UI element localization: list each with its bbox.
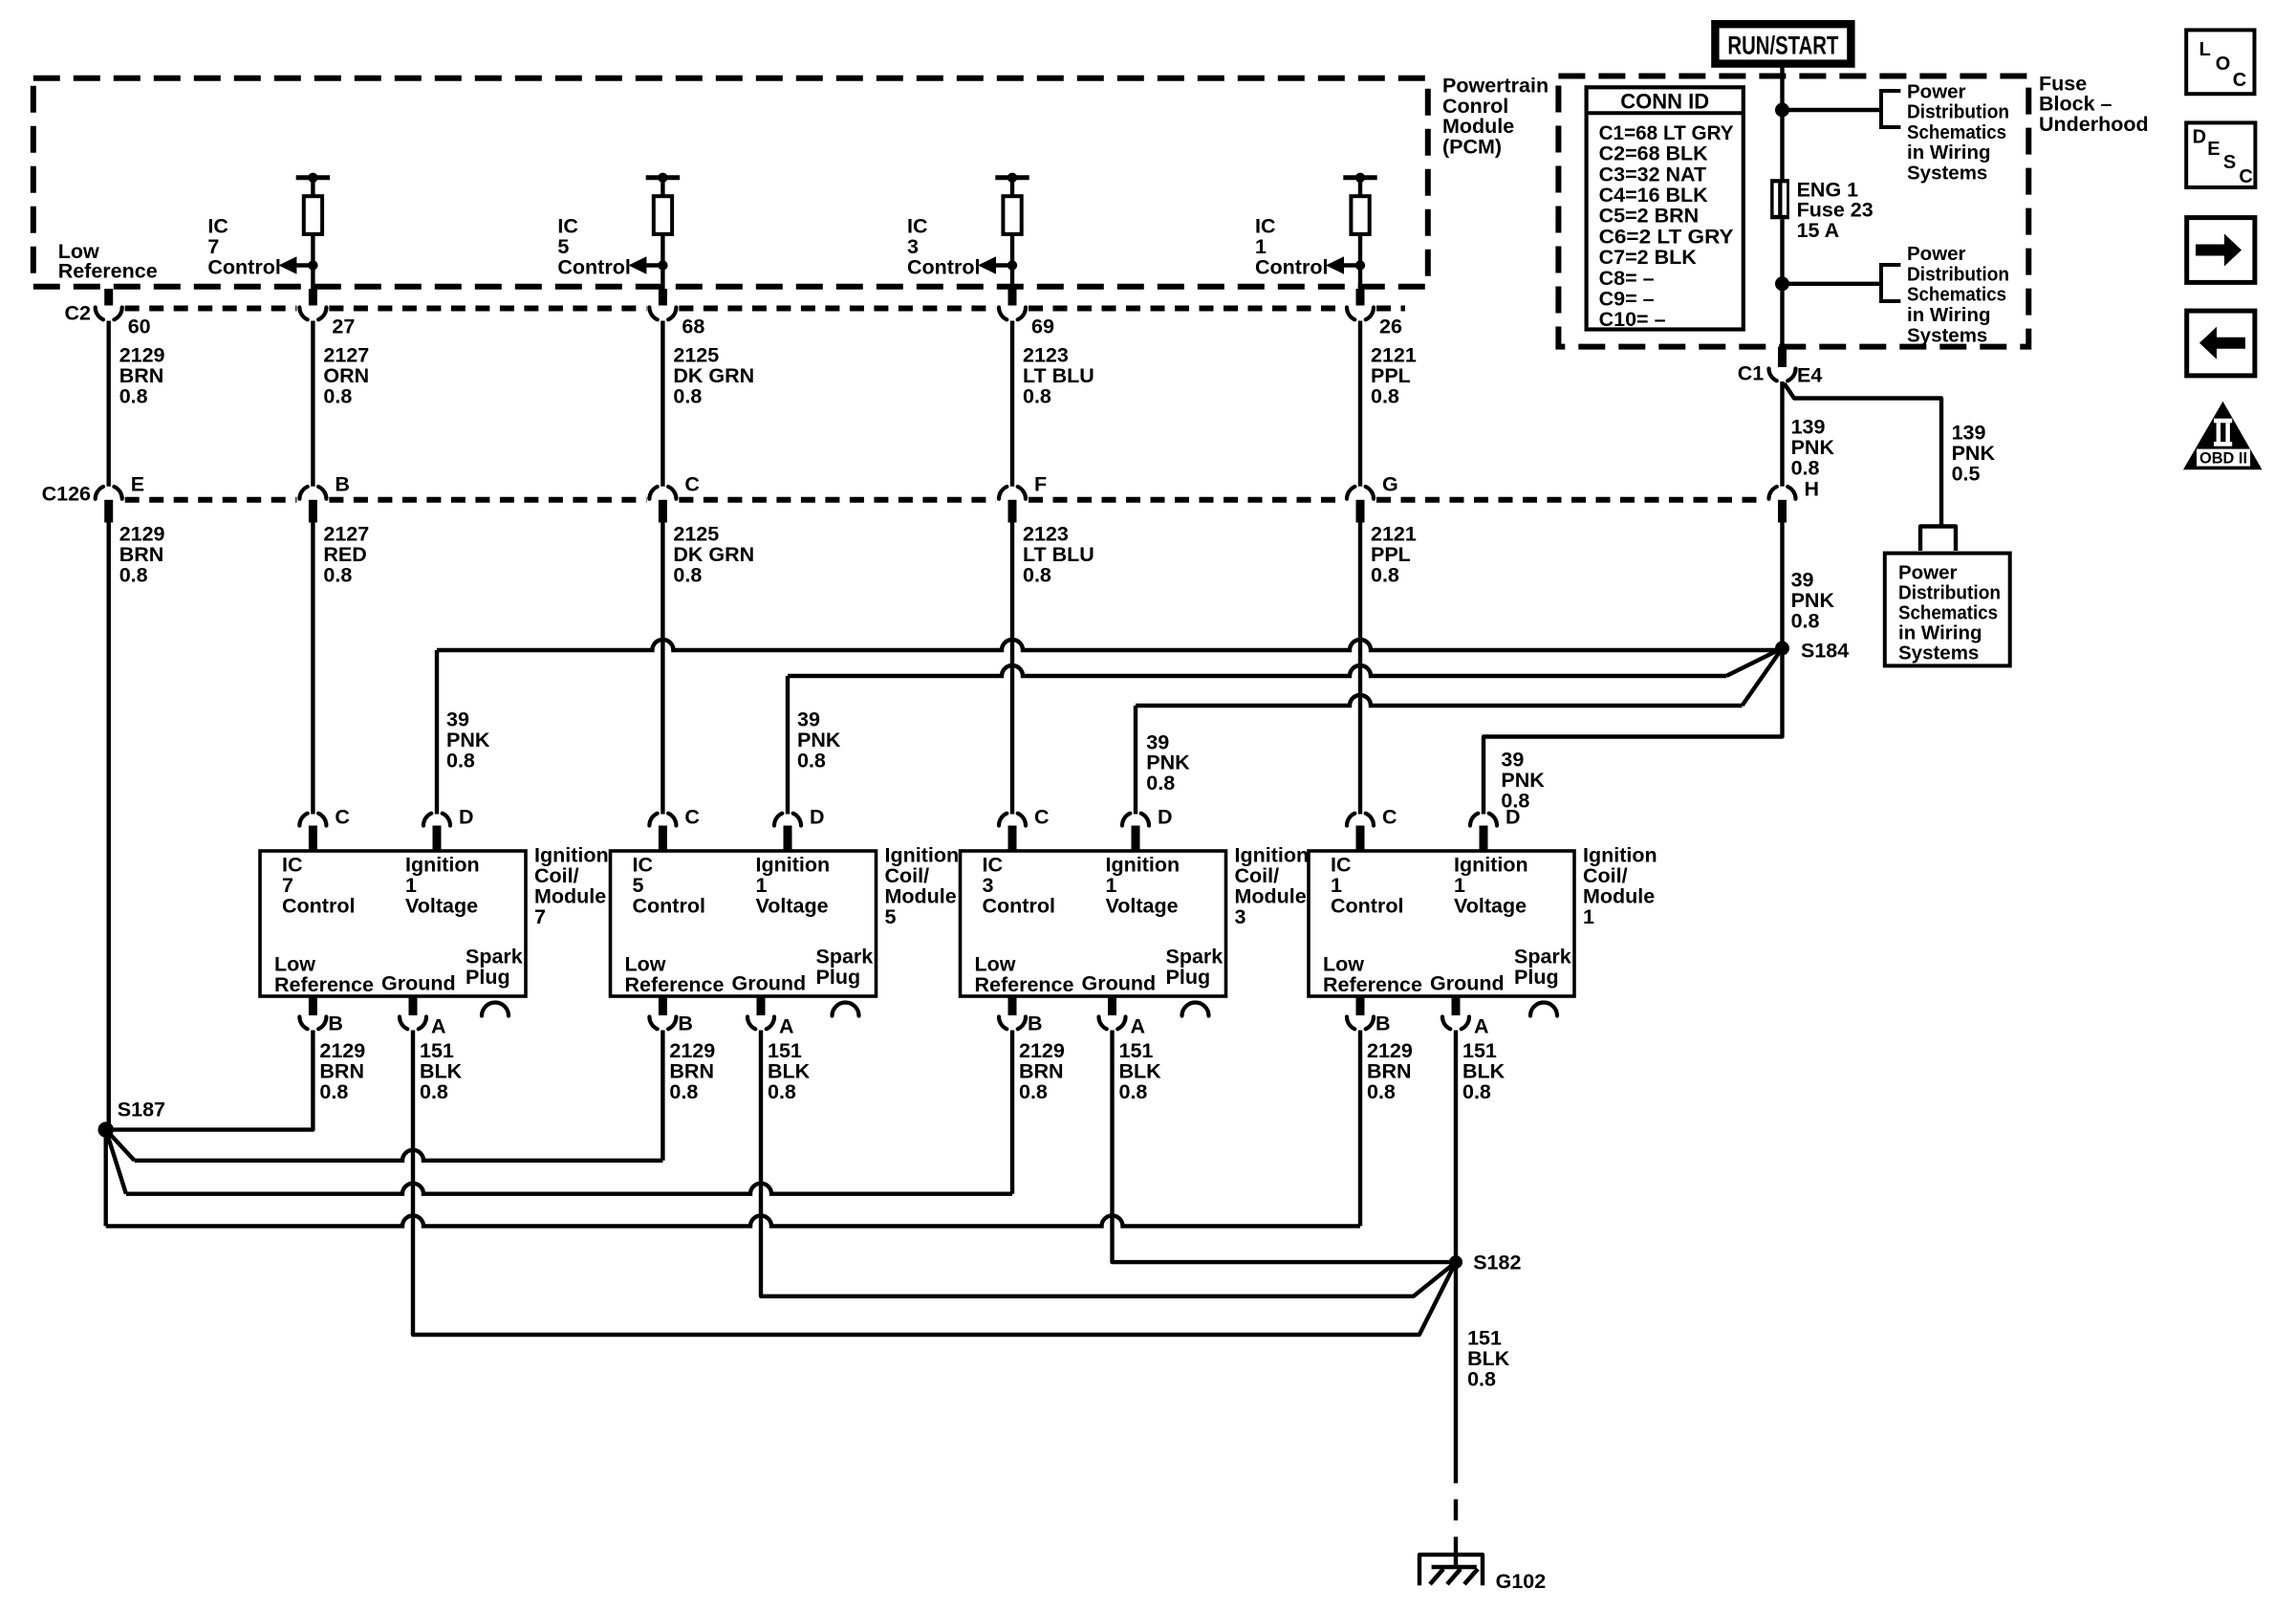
RUN/START power tag box — [1715, 24, 1851, 63]
wire label 2129 BRN 0.8 (lower) — [119, 523, 165, 587]
ignition coil/module 5 box — [611, 851, 877, 996]
label: coil 3 pin C — [1034, 806, 1050, 829]
svg-text:Distribution: Distribution — [1907, 101, 2009, 123]
coil 5 spark plug arc — [833, 1003, 859, 1016]
PCM module dashed box — [33, 78, 1428, 287]
supply rail T-bar IC 1 driver — [1343, 173, 1376, 197]
svg-text:B: B — [328, 1012, 343, 1035]
connector row C126 dotted line — [125, 497, 1766, 503]
svg-text:Ground: Ground — [1082, 972, 1157, 995]
wire low reference bus to coil 1 — [106, 1031, 1360, 1227]
label: coil 5 pin A — [779, 1015, 794, 1038]
resistor IC 3 driver — [1003, 196, 1021, 234]
wire segment 2127 ORN (C2 to C126) — [311, 321, 314, 487]
connector row C2 dotted line — [125, 306, 1405, 312]
wire 39 PNK to coil 5 pin D — [788, 648, 1783, 815]
svg-text:Systems: Systems — [1907, 162, 1987, 184]
icon forward arrow — [2196, 234, 2242, 267]
svg-text:C2=68 BLK: C2=68 BLK — [1599, 142, 1709, 165]
wire segment 2125 DK GRN (C2 to C126) — [661, 321, 664, 487]
arrow IC 1 control output — [1326, 256, 1365, 273]
label: coil 7 pin B — [328, 1012, 343, 1035]
wire label 2125 DK GRN 0.8 (lower) — [673, 523, 754, 587]
connector C2 pin 69 — [999, 289, 1026, 319]
svg-text:B: B — [1375, 1012, 1391, 1035]
label: Powertrain Control Module (PCM) — [1442, 74, 1549, 158]
label: IC 3 Control (coil box) — [983, 854, 1055, 918]
icon DESC box — [2186, 122, 2255, 187]
svg-text:in Wiring: in Wiring — [1907, 304, 1991, 326]
svg-text:S182: S182 — [1473, 1251, 1521, 1274]
icon OBD II triangle — [2183, 402, 2263, 469]
label: Low Reference (coil 5) — [625, 953, 725, 996]
label: Ignition 1 Voltage (coil 1) — [1454, 854, 1528, 918]
coil 7 pin D connector — [423, 814, 450, 851]
svg-text:Schematics: Schematics — [1907, 121, 2006, 143]
svg-text:C1=68 LT GRY: C1=68 LT GRY — [1599, 121, 1734, 144]
wire segment 2129 BRN (C2 to C126) — [106, 321, 110, 487]
connector C126 pin B — [299, 487, 326, 522]
svg-text:60: 60 — [128, 316, 151, 338]
wire coil 5 ground to S182 — [761, 1031, 1456, 1296]
connector C2 pin 60 — [96, 289, 122, 319]
icon back-arrow box — [2187, 311, 2255, 376]
ground symbol G102 — [1419, 1555, 1483, 1585]
svg-text:C3=32 NAT: C3=32 NAT — [1599, 163, 1707, 185]
wire label 139 PNK 0.5 — [1952, 422, 1996, 486]
label: Spark Plug (coil 5) — [816, 946, 874, 989]
wire label 2129 BRN 0.8 (upper) — [119, 344, 165, 408]
label: IC 3 Control (PCM) — [907, 215, 980, 279]
splice S184 — [1775, 642, 1789, 656]
wire coil 7 pin B to S187 — [106, 1031, 314, 1130]
wire label 151 BLK 0.8 (coil 7 ground) — [420, 1039, 463, 1103]
svg-text:D: D — [2193, 126, 2206, 147]
svg-text:D: D — [1505, 806, 1521, 829]
wire label 39 PNK 0.8 (below H) — [1791, 569, 1835, 633]
svg-text:Schematics: Schematics — [1907, 284, 2006, 306]
svg-text:26: 26 — [1379, 316, 1402, 338]
label: IC 1 Control (PCM) — [1255, 215, 1328, 279]
splice S187 — [98, 1121, 114, 1137]
label: IC 5 Control (PCM) — [557, 215, 630, 279]
label: Spark Plug (coil 3) — [1166, 946, 1224, 989]
coil 7 pin A connector — [400, 996, 426, 1029]
label: C126 pin letter G — [1382, 473, 1398, 496]
coil 3 pin D connector — [1122, 814, 1149, 851]
coil 1 pin A connector — [1442, 996, 1469, 1029]
coil 3 pin A connector — [1099, 996, 1126, 1029]
svg-text:A: A — [779, 1015, 794, 1038]
wire IC 3 control (inside PCM) — [1010, 234, 1014, 305]
label: Low Reference (coil 7) — [274, 953, 374, 996]
svg-text:Distribution: Distribution — [1898, 581, 2001, 603]
splice S182 — [1449, 1255, 1462, 1269]
label: S182 — [1473, 1251, 1521, 1274]
junction dot upper branch — [1775, 103, 1789, 118]
resistor IC 1 driver — [1351, 196, 1369, 234]
power distribution schematics reference box — [1885, 554, 2010, 666]
wire 139 PNK 0.5 branch — [1785, 383, 1942, 527]
wire label 151 BLK 0.8 (coil 1 ground) — [1462, 1039, 1505, 1103]
wire coil 3 ground to S182 — [1113, 1031, 1457, 1263]
off-page bracket (upper) — [1881, 89, 1900, 129]
wire label 39 PNK 0.8 (coil 5) — [797, 708, 841, 773]
arrow IC 7 control output — [278, 256, 317, 273]
svg-text:D: D — [459, 806, 474, 829]
label: Ignition Coil/Module 1 — [1583, 844, 1657, 928]
svg-text:E4: E4 — [1797, 364, 1822, 387]
svg-text:S: S — [2223, 152, 2236, 173]
svg-text:A: A — [431, 1015, 446, 1038]
svg-text:Power: Power — [1898, 561, 1958, 583]
wire branch to power distribution ref (lower) — [1783, 282, 1882, 286]
coil 7 pin C connector — [299, 814, 326, 851]
icon LOC box — [2186, 30, 2254, 94]
svg-text:in Wiring: in Wiring — [1907, 142, 1991, 163]
label: Low Reference (coil 1) — [1323, 953, 1422, 996]
connector C126 pin E — [96, 487, 122, 522]
wire 39 PNK to coil 7 pin D — [437, 640, 1783, 815]
label: Ground (coil 1) — [1430, 972, 1505, 995]
connector C126 pin F — [999, 487, 1026, 522]
svg-text:C: C — [2239, 166, 2252, 187]
label: E4 — [1797, 364, 1822, 387]
svg-text:C4=16 BLK: C4=16 BLK — [1599, 184, 1709, 207]
label: IC 7 Control (coil box) — [282, 854, 355, 918]
coil 1 spark plug arc — [1530, 1003, 1557, 1016]
svg-text:F: F — [1034, 473, 1047, 496]
svg-text:C: C — [1382, 806, 1397, 829]
wire 2125 DK GRN (to coil 5 pin C) — [661, 523, 664, 815]
wire coil 7 ground to S182 — [413, 1031, 1456, 1336]
label: coil 7 pin C — [335, 806, 350, 829]
wire 2121 PPL (to coil 1 pin C) — [1358, 523, 1362, 815]
svg-text:C9= –: C9= – — [1599, 288, 1655, 311]
wire label 139 PNK 0.8 — [1791, 416, 1835, 480]
svg-text:B: B — [678, 1012, 693, 1035]
off-page bracket (lower) — [1881, 263, 1900, 303]
svg-text:27: 27 — [332, 316, 355, 338]
connector C2 pin 68 — [649, 289, 676, 319]
svg-text:S184: S184 — [1801, 640, 1849, 663]
wire low reference bus to coil 5 — [108, 1031, 663, 1161]
label: C126 pin letter H — [1805, 478, 1820, 501]
label: Spark Plug (coil 1) — [1514, 946, 1571, 989]
svg-text:S187: S187 — [118, 1099, 165, 1121]
label: Low Reference (coil 3) — [975, 953, 1074, 996]
connector C1/E4 stub — [1778, 347, 1787, 367]
svg-text:Schematics: Schematics — [1898, 601, 1998, 623]
wire fuse to lower junction — [1780, 219, 1784, 346]
wire label 2127 ORN 0.8 (upper) — [323, 344, 369, 408]
coil 5 pin B connector — [649, 996, 676, 1029]
label: Ignition Coil/Module 5 — [885, 844, 960, 928]
label: Fuse Block - Underhood — [2039, 72, 2149, 136]
coil 3 pin B connector — [999, 996, 1026, 1029]
label: Power Distribution Schematics in Wiring Systems (upper) — [1907, 80, 2009, 184]
in-line connector staple (power distribution box) — [1920, 527, 1956, 552]
label: C126 pin letter B — [335, 473, 350, 496]
coil 1 pin D connector — [1470, 814, 1497, 851]
label: C2 pin number 69 — [1031, 316, 1054, 338]
CONN ID table box — [1585, 87, 1744, 329]
svg-text:Ground: Ground — [1430, 972, 1505, 995]
label: coil 3 pin D — [1158, 806, 1173, 829]
supply rail T-bar IC 7 driver — [296, 173, 330, 197]
wire label 2127 RED 0.8 (lower) — [323, 523, 369, 587]
label: C2 pin number 26 — [1379, 316, 1402, 338]
label: G102 — [1496, 1570, 1547, 1593]
svg-text:Power: Power — [1907, 243, 1966, 265]
connector C1/E4 arc — [1769, 369, 1796, 381]
label: C2 pin number 27 — [332, 316, 355, 338]
label: Ignition 1 Voltage (coil 5) — [756, 854, 831, 918]
svg-text:E: E — [131, 473, 144, 496]
svg-text:Distribution: Distribution — [1907, 263, 2009, 285]
wire 2129 BRN (low reference trunk) — [106, 523, 110, 1130]
wire IC 1 control (inside PCM) — [1358, 234, 1362, 305]
label: coil 1 pin A — [1474, 1015, 1489, 1038]
wire coil 1 ground to S182 — [1454, 1031, 1458, 1263]
label: C126 pin letter C — [684, 473, 700, 496]
svg-text:CONN ID: CONN ID — [1620, 90, 1709, 114]
wire IC 7 control (inside PCM) — [311, 234, 314, 305]
label: C126 pin letter F — [1034, 473, 1047, 496]
connector C126 pin H — [1769, 487, 1796, 522]
fuse ENG 1 Fuse 23 15 A — [1770, 179, 1789, 219]
label: IC 1 Control (coil box) — [1331, 854, 1403, 918]
svg-text:L: L — [2199, 39, 2211, 60]
icon forward-arrow box — [2187, 218, 2255, 283]
wire low reference bus to coil 3 — [107, 1031, 1012, 1194]
wire label 151 BLK 0.8 (coil 3 ground) — [1119, 1039, 1162, 1103]
label: Power Distribution Schematics in Wiring Systems (lower) — [1907, 243, 2009, 346]
svg-text:C6=2 LT GRY: C6=2 LT GRY — [1599, 225, 1734, 248]
resistor IC 5 driver — [654, 196, 672, 234]
label: S184 — [1801, 640, 1849, 663]
coil 5 pin C connector — [649, 814, 676, 851]
arrow IC 5 control output — [628, 256, 667, 273]
label: coil 1 pin C — [1382, 806, 1397, 829]
wire IC 5 control (inside PCM) — [661, 234, 664, 305]
coil 7 spark plug arc — [482, 1003, 509, 1016]
svg-text:B: B — [335, 473, 350, 496]
ignition coil/module 7 box — [260, 851, 526, 996]
wire label 39 PNK 0.8 (coil 3) — [1146, 730, 1190, 795]
coil 7 pin B connector — [299, 996, 326, 1029]
svg-text:C: C — [1034, 806, 1050, 829]
svg-text:D: D — [810, 806, 825, 829]
label: Ignition 1 Voltage (coil 3) — [1106, 854, 1180, 918]
wire label 2129 BRN 0.8 (coil 7 low ref) — [319, 1039, 365, 1103]
CONN ID table rows — [1599, 121, 1734, 331]
svg-text:C: C — [2233, 70, 2246, 91]
svg-text:C8= –: C8= – — [1599, 267, 1655, 290]
icon LOC letters — [2199, 39, 2247, 91]
label: ENG 1 Fuse 23 15 A — [1797, 178, 1874, 242]
svg-text:C2: C2 — [65, 302, 92, 325]
label: coil 5 pin B — [678, 1012, 693, 1035]
label: Ground (coil 7) — [381, 972, 456, 995]
label: coil 3 pin A — [1131, 1015, 1146, 1038]
wire 39 PNK to coil 1 pin D — [1484, 648, 1783, 815]
svg-text:C: C — [335, 806, 350, 829]
svg-text:H: H — [1805, 478, 1820, 501]
svg-text:A: A — [1131, 1015, 1146, 1038]
label: S187 — [118, 1099, 165, 1121]
label: Low Reference (PCM pin 60) — [58, 240, 158, 283]
svg-text:C1: C1 — [1738, 362, 1765, 385]
icon back arrow — [2199, 327, 2245, 359]
svg-text:C: C — [684, 806, 700, 829]
icon DESC letters — [2193, 126, 2253, 187]
coil 1 pin B connector — [1347, 996, 1374, 1029]
label: coil 3 pin B — [1028, 1012, 1043, 1035]
label: C2 pin number 60 — [128, 316, 151, 338]
svg-text:OBD II: OBD II — [2199, 450, 2247, 468]
wire label 39 PNK 0.8 (coil 7) — [446, 708, 490, 773]
label: Ignition Coil/Module 7 — [534, 844, 609, 928]
coil 3 pin C connector — [999, 814, 1026, 851]
label: coil 1 pin B — [1375, 1012, 1391, 1035]
supply rail T-bar IC 5 driver — [646, 173, 680, 197]
svg-text:C10= –: C10= – — [1599, 308, 1666, 331]
wire label 2121 PPL 0.8 (lower) — [1371, 523, 1417, 587]
wire segment 2121 PPL (C2 to C126) — [1358, 321, 1362, 487]
wire RUN/START feed (upper) — [1780, 66, 1784, 180]
wire segment 2123 LT BLU (C2 to C126) — [1010, 321, 1014, 487]
connector C2 name label — [65, 302, 92, 325]
wire 39 PNK to coil 3 pin D — [1136, 648, 1783, 815]
wire 2127 RED (to coil 7 pin C) — [311, 523, 314, 815]
wire branch to power distribution ref (upper) — [1783, 108, 1882, 112]
wire label 39 PNK 0.8 (coil 1) — [1501, 749, 1545, 813]
wire 39 PNK 0.8 (pin H to S184) — [1780, 523, 1784, 649]
label: RUN/START — [1727, 32, 1838, 60]
connector C126 pin C — [649, 487, 676, 522]
wire label 2129 BRN 0.8 (coil 5 low ref) — [669, 1039, 715, 1103]
wire label 2121 PPL 0.8 (upper) — [1371, 344, 1417, 408]
connector C2 pin 26 — [1347, 289, 1374, 319]
label: coil 5 pin D — [810, 806, 825, 829]
label: Spark Plug (coil 7) — [466, 946, 523, 989]
junction dot lower branch — [1775, 276, 1789, 291]
wire 2129 BRN trunk (C126 E to S187) — [106, 523, 110, 1130]
arrow IC 3 control output — [978, 256, 1017, 273]
svg-text:68: 68 — [682, 316, 704, 338]
label: Ground (coil 5) — [732, 972, 807, 995]
wire label 2129 BRN 0.8 (coil 3 low ref) — [1019, 1039, 1065, 1103]
connector C126 name label — [42, 483, 91, 506]
label: coil 1 pin D — [1505, 806, 1521, 829]
coil 1 pin C connector — [1347, 814, 1374, 851]
label: C1 — [1738, 362, 1765, 385]
label: IC 7 Control (PCM) — [207, 215, 280, 279]
label: coil 7 pin A — [431, 1015, 446, 1038]
wire label 2129 BRN 0.8 (coil 1 low ref) — [1367, 1039, 1413, 1103]
wire label 2123 LT BLU 0.8 (lower) — [1023, 523, 1094, 587]
svg-text:C7=2 BLK: C7=2 BLK — [1599, 246, 1698, 269]
svg-text:RUN/START: RUN/START — [1727, 32, 1838, 60]
svg-text:Power: Power — [1907, 80, 1966, 102]
svg-text:69: 69 — [1031, 316, 1054, 338]
svg-text:B: B — [1028, 1012, 1043, 1035]
coil 5 pin A connector — [747, 996, 774, 1029]
label: C2 pin number 68 — [682, 316, 704, 338]
connector C2 pin 27 — [299, 289, 326, 319]
wire 2123 LT BLU (to coil 3 pin C) — [1010, 523, 1014, 815]
svg-text:E: E — [2207, 139, 2220, 160]
label: Ignition 1 Voltage (coil 7) — [405, 854, 480, 918]
supply rail T-bar IC 3 driver — [995, 173, 1029, 197]
fuse block dashed box — [1558, 76, 2028, 347]
svg-text:C5=2 BRN: C5=2 BRN — [1599, 205, 1700, 228]
label: IC 5 Control (coil box) — [633, 854, 705, 918]
wire label 2123 LT BLU 0.8 (upper) — [1023, 344, 1094, 408]
wire label 151 BLK 0.8 (coil 5 ground) — [768, 1039, 811, 1103]
svg-text:C: C — [684, 473, 700, 496]
ignition coil/module 1 box — [1309, 851, 1574, 996]
svg-text:G102: G102 — [1496, 1570, 1547, 1593]
svg-text:C126: C126 — [42, 483, 91, 506]
ignition coil/module 3 box — [961, 851, 1226, 996]
label: Ignition Coil/Module 3 — [1235, 844, 1310, 928]
connector C126 pin G — [1347, 487, 1374, 522]
label: C126 pin letter E — [131, 473, 144, 496]
svg-text:G: G — [1382, 473, 1398, 496]
coil 5 pin D connector — [774, 814, 801, 851]
wire label 2125 DK GRN 0.8 (upper) — [673, 344, 754, 408]
svg-text:in Wiring: in Wiring — [1898, 621, 1982, 643]
svg-text:A: A — [1474, 1015, 1489, 1038]
svg-text:Systems: Systems — [1898, 642, 1979, 664]
label: Power Distribution Schematics in Wiring Systems (boxed) — [1898, 561, 2001, 664]
coil 3 spark plug arc — [1182, 1003, 1209, 1016]
label: coil 7 pin D — [459, 806, 474, 829]
svg-text:Ground: Ground — [732, 972, 807, 995]
wire label 151 BLK 0.8 (below S182) — [1467, 1327, 1510, 1391]
label: CONN ID header — [1620, 90, 1709, 114]
wire 139 PNK 0.8 (C1 to pin H) — [1780, 381, 1784, 487]
svg-text:D: D — [1158, 806, 1173, 829]
label: Ground (coil 3) — [1082, 972, 1157, 995]
label: coil 5 pin C — [684, 806, 700, 829]
resistor IC 7 driver — [304, 196, 322, 234]
svg-text:Systems: Systems — [1907, 324, 1987, 346]
svg-text:O: O — [2216, 54, 2231, 75]
svg-text:Ground: Ground — [381, 972, 456, 995]
wire S182 to ground G102 — [1454, 1262, 1458, 1569]
